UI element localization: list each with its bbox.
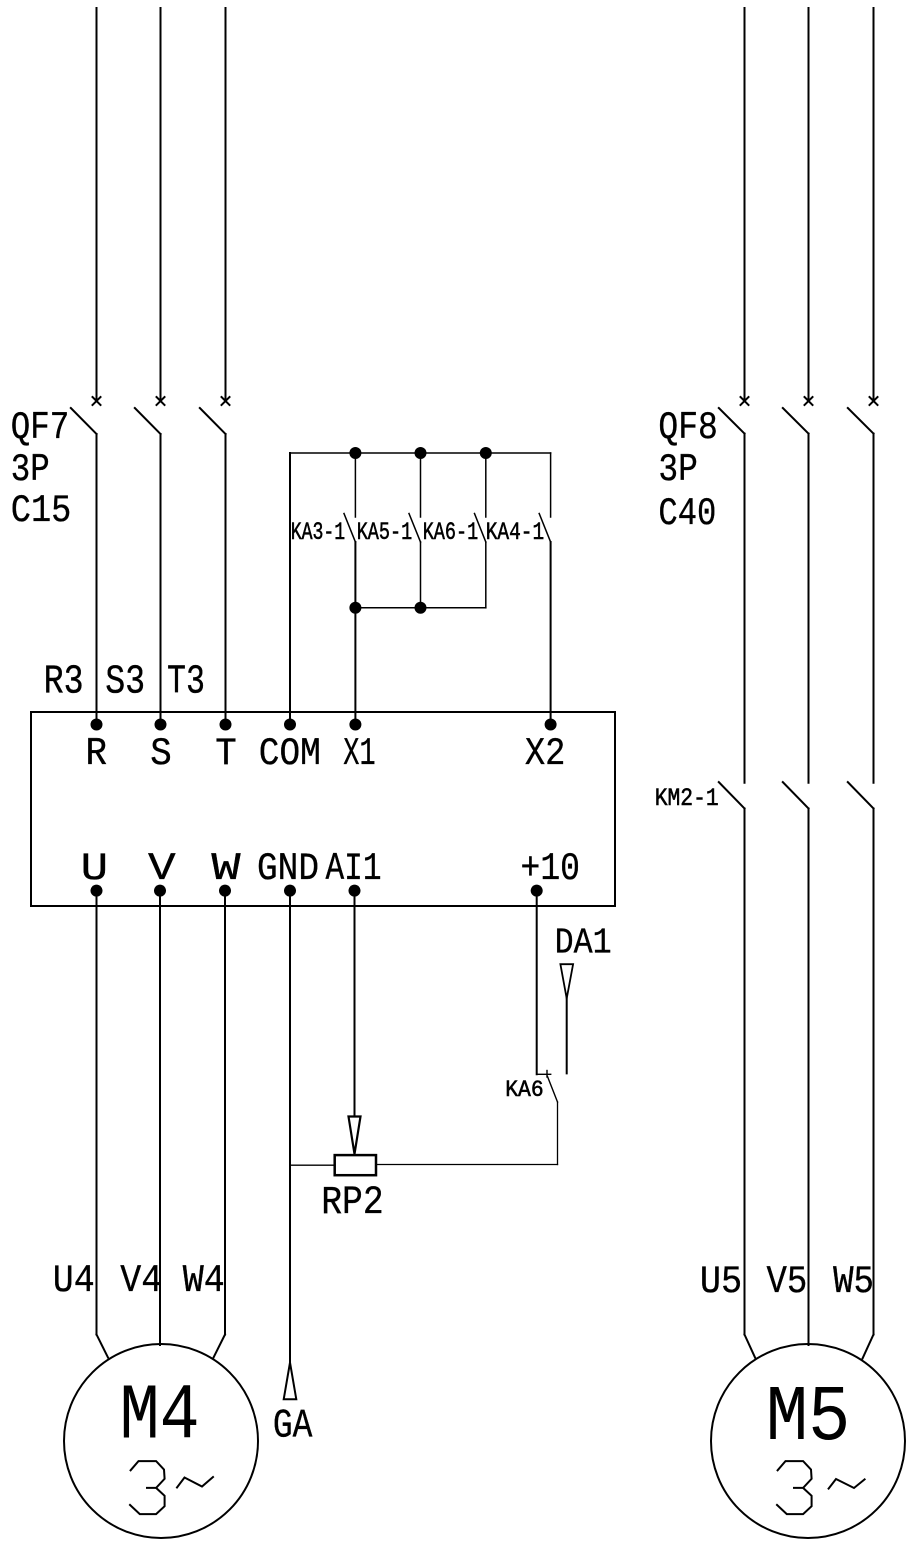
- breaker QF7 pole 2 x-mark: [157, 397, 165, 405]
- terminal node X2: [545, 719, 557, 731]
- wire KA6 to RP2 rail: [557, 1102, 559, 1165]
- wire KA3-1 lower to X1: [354, 542, 356, 725]
- wire R3 (QF7 pole1 to terminal R): [96, 434, 98, 725]
- motor M5 circle: [711, 1344, 905, 1538]
- svg-text:M4: M4: [120, 1372, 200, 1462]
- breaker QF8 pole 2 x-mark: [805, 397, 813, 405]
- wire KM2-1 pole2 to motor M5 V5: [808, 809, 810, 1346]
- svg-text:W4: W4: [183, 1259, 225, 1303]
- terminal node COM: [284, 719, 296, 731]
- wire S3 (QF7 pole2 to terminal S): [160, 434, 162, 725]
- terminal node +10: [531, 885, 543, 897]
- node junction middle rail X1: [349, 602, 361, 614]
- wire QF8 pole2 to KM2-1: [808, 434, 810, 783]
- relay contact KA6-1 blade: [475, 514, 486, 543]
- breaker QF8 pole 3 x-mark: [870, 397, 878, 405]
- svg-text:V5: V5: [767, 1260, 808, 1304]
- contactor KM2-1 pole 2 blade: [783, 782, 809, 808]
- motor M4 circle: [64, 1344, 258, 1538]
- wire phase R right top: [744, 8, 746, 399]
- breaker QF7 pole 3 blade: [200, 408, 226, 434]
- wire QF8 pole3 to KM2-1: [873, 434, 875, 783]
- wire KA4-1 lower to X2: [550, 542, 552, 725]
- wire KA6-1 upper: [485, 453, 487, 517]
- potentiometer RP2 body: [335, 1155, 376, 1175]
- wire control top rail: [290, 452, 551, 454]
- wire KA6-1 lower: [485, 542, 487, 608]
- wire phase T right top: [873, 8, 875, 399]
- svg-text:QF8: QF8: [658, 406, 718, 450]
- node junction middle rail KA5: [415, 602, 427, 614]
- relay contact KA3-1 blade: [344, 514, 355, 543]
- svg-text:+10: +10: [521, 847, 581, 891]
- connector DA1 arrow: [560, 964, 573, 998]
- node junction top rail KA5: [415, 447, 427, 459]
- svg-text:T3: T3: [167, 660, 205, 706]
- terminal node T: [220, 719, 232, 731]
- wire U output: [96, 891, 98, 1335]
- wire W5 lead-in diagonal: [863, 1335, 874, 1359]
- svg-text:AI1: AI1: [326, 847, 382, 891]
- motor M4 3-phase glyph tilde: [177, 1477, 213, 1488]
- svg-text:S3: S3: [105, 660, 145, 706]
- wire RP2 left rail: [290, 1164, 335, 1166]
- terminal node U: [91, 885, 103, 897]
- wire U5 lead-in diagonal: [745, 1335, 756, 1359]
- svg-text:KA6-1: KA6-1: [423, 518, 479, 547]
- wire V output: [159, 891, 161, 1345]
- breaker QF8 pole 1 blade: [719, 408, 745, 434]
- node junction top rail KA6: [480, 447, 492, 459]
- wire phase T top: [225, 8, 227, 399]
- motor M5 3-phase glyph 3: [777, 1461, 812, 1514]
- svg-text:3P: 3P: [658, 448, 698, 492]
- relay contact KA5-1 blade: [409, 514, 421, 543]
- breaker QF8 pole 1 x-mark: [741, 397, 749, 405]
- wire +10 stub: [537, 1073, 551, 1075]
- svg-text:DA1: DA1: [555, 922, 612, 963]
- wire control middle rail: [355, 607, 485, 609]
- svg-text:V: V: [148, 847, 176, 891]
- connector DA1 tail: [566, 999, 568, 1074]
- svg-text:KM2-1: KM2-1: [655, 784, 719, 813]
- wire KA4-1 upper: [550, 453, 552, 517]
- wire W4 lead-in diagonal: [214, 1335, 226, 1358]
- terminal arrow GA: [284, 1363, 297, 1400]
- svg-text:M5: M5: [766, 1373, 851, 1463]
- svg-text:X2: X2: [525, 732, 566, 776]
- terminal node X1: [349, 719, 361, 731]
- svg-text:3P: 3P: [11, 448, 50, 492]
- breaker QF7 pole 1 blade: [71, 408, 97, 434]
- wire KM2-1 pole3 to motor M5 W5: [873, 809, 875, 1335]
- wire +10 down: [536, 891, 538, 1075]
- svg-text:T: T: [215, 732, 237, 776]
- wire KA3-1 upper: [354, 453, 356, 517]
- wire phase S right top: [808, 8, 810, 399]
- contactor KM2-1 pole 3 blade: [848, 782, 874, 808]
- svg-text:U4: U4: [53, 1259, 95, 1303]
- svg-text:C40: C40: [658, 492, 716, 536]
- wire AI1 to RP2 wiper: [354, 891, 356, 1117]
- motor M5 3-phase glyph tilde: [829, 1479, 865, 1489]
- svg-text:X1: X1: [343, 732, 375, 776]
- terminal node GND: [284, 885, 296, 897]
- svg-text:C15: C15: [11, 489, 72, 533]
- svg-text:KA3-1: KA3-1: [291, 518, 346, 547]
- svg-text:W: W: [211, 847, 241, 891]
- relay contact KA4-1 blade: [539, 514, 550, 543]
- breaker QF8 pole 2 blade: [783, 408, 809, 434]
- arrow RP2 wiper: [349, 1117, 361, 1155]
- svg-text:V4: V4: [120, 1259, 162, 1303]
- wire T3 (QF7 pole3 to terminal T): [225, 434, 227, 725]
- svg-text:S: S: [150, 732, 172, 776]
- svg-text:KA4-1: KA4-1: [486, 518, 545, 547]
- wire QF8 pole1 to KM2-1: [744, 434, 746, 783]
- terminal node V: [154, 885, 166, 897]
- svg-text:KA6: KA6: [505, 1077, 544, 1103]
- wire KA5-1 lower: [420, 542, 422, 608]
- wire phase S top: [160, 8, 162, 399]
- wire COM riser: [289, 453, 291, 725]
- VFD block U1 outline: [31, 712, 615, 906]
- wire RP2 right rail: [376, 1164, 558, 1166]
- svg-text:U5: U5: [700, 1260, 742, 1304]
- terminal node AI1: [349, 885, 361, 897]
- relay contact KA6 blade: [548, 1077, 558, 1103]
- breaker QF7 pole 1 x-mark: [93, 397, 101, 405]
- svg-text:GND: GND: [257, 847, 319, 891]
- contactor KM2-1 pole 1 blade: [719, 782, 745, 808]
- wire GND to GA: [289, 891, 291, 1363]
- terminal node R: [91, 719, 103, 731]
- svg-text:COM: COM: [259, 732, 321, 776]
- terminal node W: [219, 885, 231, 897]
- svg-text:GA: GA: [273, 1404, 313, 1450]
- svg-text:U: U: [81, 847, 109, 891]
- relay contact KA6 fixed tick: [546, 1071, 548, 1078]
- wire KA5-1 upper: [420, 453, 422, 517]
- breaker QF7 pole 3 x-mark: [222, 397, 230, 405]
- terminal node S: [155, 719, 167, 731]
- svg-text:QF7: QF7: [11, 406, 70, 450]
- breaker QF8 pole 3 blade: [848, 408, 874, 434]
- wire KM2-1 pole1 to motor M5 U5: [744, 809, 746, 1335]
- wire W output: [224, 891, 226, 1335]
- wire phase R top: [96, 8, 98, 399]
- wire U4 lead-in diagonal: [97, 1335, 109, 1358]
- svg-text:RP2: RP2: [321, 1181, 384, 1226]
- breaker QF7 pole 2 blade: [135, 408, 161, 434]
- svg-text:R3: R3: [44, 660, 84, 706]
- motor M4 3-phase glyph 3: [130, 1461, 165, 1514]
- node junction top rail X1: [349, 447, 361, 459]
- svg-text:W5: W5: [833, 1260, 874, 1304]
- svg-text:KA5-1: KA5-1: [357, 518, 413, 547]
- svg-text:R: R: [86, 732, 108, 776]
